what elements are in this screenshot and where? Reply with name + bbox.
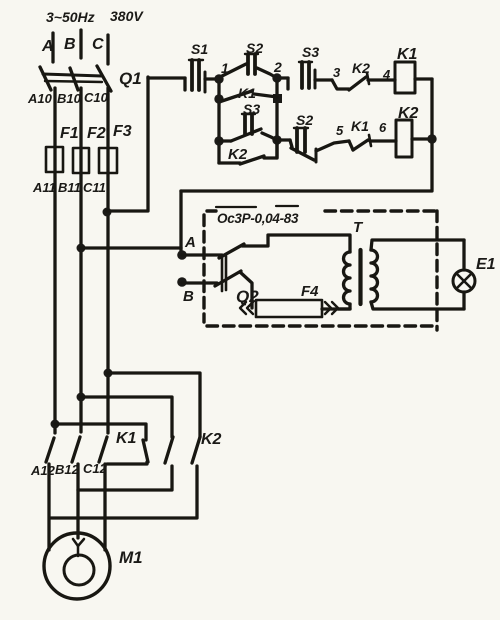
- svg-text:S1: S1: [191, 41, 208, 57]
- svg-text:5: 5: [336, 123, 344, 138]
- svg-text:S2: S2: [296, 112, 313, 128]
- svg-text:F4: F4: [301, 283, 319, 300]
- svg-text:F1: F1: [60, 125, 79, 142]
- svg-text:Q2: Q2: [236, 287, 259, 306]
- svg-text:F2: F2: [87, 125, 106, 142]
- svg-text:K2: K2: [398, 105, 419, 122]
- svg-text:B: B: [64, 36, 76, 53]
- svg-text:K2: K2: [201, 431, 222, 448]
- svg-text:C12: C12: [83, 461, 108, 476]
- svg-text:1: 1: [221, 60, 229, 76]
- svg-text:B12: B12: [55, 462, 80, 477]
- svg-text:K1: K1: [397, 46, 418, 63]
- svg-text:A: A: [184, 234, 196, 251]
- svg-text:S3: S3: [302, 44, 319, 60]
- svg-text:T: T: [353, 219, 364, 236]
- svg-text:F3: F3: [113, 123, 132, 140]
- svg-text:A12: A12: [30, 463, 56, 478]
- svg-text:3~50Hz: 3~50Hz: [46, 9, 95, 25]
- svg-text:Q1: Q1: [119, 69, 142, 88]
- svg-text:M1: M1: [119, 548, 143, 567]
- svg-text:2: 2: [273, 59, 282, 75]
- svg-text:4: 4: [382, 67, 391, 82]
- svg-text:K1: K1: [351, 118, 369, 134]
- svg-text:K1: K1: [116, 430, 137, 447]
- svg-text:C: C: [92, 36, 104, 53]
- svg-text:C10: C10: [84, 90, 109, 105]
- svg-text:6: 6: [379, 120, 387, 135]
- svg-text:A11: A11: [32, 180, 56, 195]
- svg-text:380V: 380V: [110, 8, 144, 24]
- svg-text:S2: S2: [246, 40, 263, 56]
- svg-text:C11: C11: [83, 180, 106, 195]
- svg-text:B10: B10: [57, 91, 82, 106]
- svg-text:A: A: [41, 38, 54, 55]
- svg-text:B: B: [183, 288, 194, 305]
- svg-text:Ос3Р-0,04-83: Ос3Р-0,04-83: [217, 211, 299, 226]
- svg-text:E1: E1: [476, 256, 496, 273]
- svg-text:A10: A10: [27, 91, 53, 106]
- svg-text:K2: K2: [228, 146, 248, 163]
- svg-text:S3: S3: [243, 101, 260, 117]
- svg-text:K1: K1: [238, 85, 256, 101]
- svg-text:3: 3: [333, 65, 341, 80]
- svg-text:K2: K2: [352, 60, 370, 76]
- svg-text:B11: B11: [58, 180, 81, 195]
